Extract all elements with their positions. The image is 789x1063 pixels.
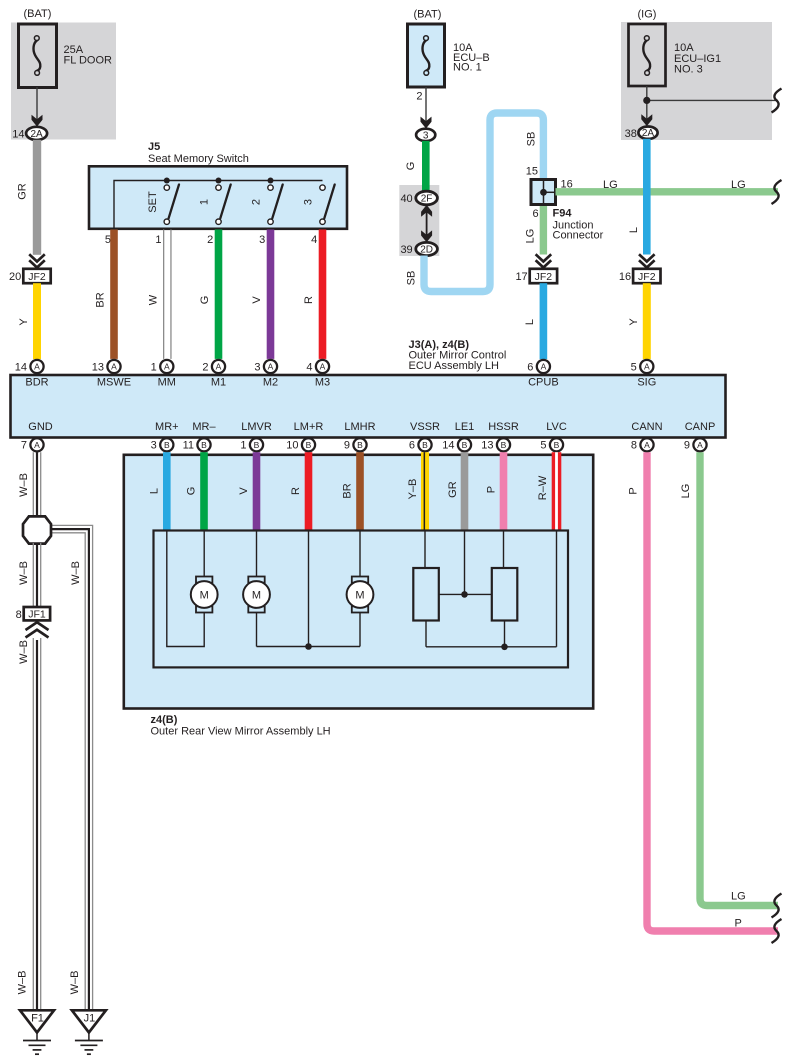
- svg-text:VSSR: VSSR: [410, 421, 440, 433]
- wire L inside to motor1 bottom: [167, 531, 204, 647]
- svg-text:F1: F1: [31, 1013, 44, 1025]
- middle link resistor1-resistor2: [439, 593, 492, 595]
- node dot 2: [268, 178, 274, 184]
- svg-text:LMVR: LMVR: [241, 421, 272, 433]
- wire G green: [215, 230, 223, 359]
- svg-text:Seat Memory Switch: Seat Memory Switch: [148, 153, 249, 165]
- svg-text:(BAT): (BAT): [414, 9, 442, 21]
- svg-text:5: 5: [105, 234, 111, 246]
- svg-text:M1: M1: [211, 377, 226, 389]
- svg-text:Y–B: Y–B: [407, 479, 419, 500]
- chevron into JF2 pin16: [639, 254, 655, 267]
- wire P pink CANN routed to right: [647, 452, 778, 931]
- svg-text:M: M: [355, 589, 364, 601]
- svg-text:W–B: W–B: [18, 640, 30, 664]
- svg-text:LG: LG: [524, 229, 536, 244]
- svg-text:L: L: [148, 488, 160, 494]
- svg-text:10: 10: [286, 440, 298, 452]
- svg-text:2: 2: [251, 199, 263, 205]
- resistor block 1: [413, 568, 439, 621]
- svg-text:3: 3: [151, 440, 157, 452]
- svg-text:1: 1: [240, 440, 246, 452]
- svg-text:A: A: [34, 362, 40, 372]
- svg-text:B: B: [501, 440, 507, 450]
- svg-text:R: R: [290, 487, 302, 495]
- svg-text:G: G: [186, 487, 198, 496]
- svg-text:SIG: SIG: [637, 377, 656, 389]
- chevron up below JF1: [26, 622, 49, 637]
- svg-text:BDR: BDR: [25, 377, 48, 389]
- double arrow between 2F and 2D: [426, 212, 428, 235]
- wire W-B JF1 to F1 ground: [33, 638, 40, 1009]
- svg-text:GR: GR: [16, 183, 28, 200]
- svg-text:A: A: [644, 440, 650, 450]
- svg-text:11: 11: [183, 440, 194, 452]
- svg-text:MM: MM: [158, 377, 176, 389]
- svg-text:L: L: [524, 319, 536, 325]
- svg-text:3: 3: [423, 130, 429, 141]
- svg-text:2: 2: [207, 234, 213, 246]
- svg-text:8: 8: [16, 609, 22, 621]
- svg-text:A: A: [216, 362, 222, 372]
- svg-text:A: A: [164, 362, 170, 372]
- svg-text:LG: LG: [680, 484, 692, 499]
- wire G inside to motor1 top: [203, 531, 205, 577]
- gray relay block box right: [621, 22, 772, 140]
- svg-text:B: B: [254, 440, 260, 450]
- junction dot GR link: [461, 591, 468, 598]
- svg-text:HSSR: HSSR: [488, 421, 519, 433]
- svg-text:2A: 2A: [642, 128, 655, 139]
- svg-text:13: 13: [92, 361, 104, 373]
- wire SB skyblue routed path: [424, 113, 543, 292]
- svg-text:F94: F94: [553, 208, 573, 220]
- wire BR brown: [110, 230, 118, 359]
- squiggle LG: [772, 894, 782, 918]
- svg-text:LVC: LVC: [546, 421, 567, 433]
- svg-text:NO. 1: NO. 1: [453, 62, 482, 74]
- arrowhead down: [32, 115, 43, 127]
- internal bus wire: [114, 181, 323, 230]
- svg-text:M3: M3: [315, 377, 330, 389]
- svg-text:B: B: [462, 440, 468, 450]
- svg-text:2: 2: [416, 91, 422, 103]
- wire W-B from GND to splice: [33, 452, 40, 517]
- svg-text:W–B: W–B: [18, 473, 30, 497]
- svg-text:P: P: [735, 918, 742, 930]
- svg-text:B: B: [422, 440, 428, 450]
- svg-text:CANP: CANP: [685, 421, 716, 433]
- svg-text:6: 6: [409, 440, 415, 452]
- motor M2 horizontal mirror: [248, 577, 264, 583]
- wire L blue to CPUB: [540, 283, 548, 359]
- svg-text:8: 8: [631, 440, 637, 452]
- motor rail motor2-motor3: [257, 646, 361, 648]
- svg-text:M2: M2: [263, 377, 278, 389]
- svg-text:Connector: Connector: [553, 230, 604, 242]
- svg-text:L: L: [628, 227, 640, 233]
- svg-text:SB: SB: [526, 132, 538, 147]
- svg-text:BR: BR: [342, 483, 354, 498]
- wire Y-B inside to resistor1: [424, 531, 426, 568]
- resistor1 bottom lead: [425, 621, 427, 647]
- svg-text:16: 16: [619, 271, 631, 283]
- motor M3 retract: [352, 577, 368, 583]
- svg-text:6: 6: [532, 208, 538, 220]
- svg-text:z4(B): z4(B): [151, 714, 178, 726]
- motor M1 vertical mirror: [196, 577, 212, 583]
- svg-text:LMHR: LMHR: [344, 421, 375, 433]
- svg-text:P: P: [486, 486, 498, 493]
- wire R red LM+R: [305, 452, 313, 530]
- svg-text:39: 39: [400, 244, 412, 256]
- mirror assembly box z4(B): [124, 455, 593, 709]
- svg-text:BR: BR: [95, 292, 107, 307]
- inner circuit rectangle: [154, 531, 569, 668]
- bottom link rail: [426, 646, 557, 648]
- svg-text:15: 15: [526, 166, 538, 178]
- svg-text:2: 2: [202, 361, 208, 373]
- svg-text:B: B: [554, 440, 560, 450]
- svg-text:B: B: [306, 440, 312, 450]
- connector oval 3: [416, 129, 435, 141]
- svg-text:V: V: [251, 296, 263, 304]
- wire BR brown LMHR: [356, 452, 364, 530]
- svg-text:13: 13: [481, 440, 493, 452]
- svg-text:14: 14: [15, 361, 27, 373]
- junction dot R rail: [305, 643, 312, 650]
- svg-text:R: R: [303, 296, 315, 304]
- svg-text:(IG): (IG): [638, 9, 657, 21]
- squiggle LG right: [772, 180, 782, 204]
- svg-text:NO. 3: NO. 3: [674, 64, 703, 76]
- fuse 25A FL DOOR box: [19, 24, 57, 88]
- svg-text:W–B: W–B: [17, 971, 29, 995]
- wire W white: [163, 230, 164, 359]
- svg-text:B: B: [164, 440, 170, 450]
- wire Y yellow to SIG: [643, 283, 651, 359]
- svg-text:JF2: JF2: [535, 271, 553, 283]
- arrowhead down: [641, 114, 652, 126]
- junction dot: [643, 97, 650, 104]
- wire R inside down to rail: [308, 531, 310, 647]
- svg-text:B: B: [357, 440, 363, 450]
- squiggle P: [772, 919, 782, 943]
- svg-text:A: A: [111, 362, 117, 372]
- fuse element symbol: [643, 41, 650, 71]
- svg-text:1: 1: [199, 199, 211, 205]
- svg-text:Outer Rear View Mirror Assembl: Outer Rear View Mirror Assembly LH: [151, 726, 331, 738]
- chevron into JF2: [29, 254, 45, 267]
- svg-text:V: V: [238, 487, 250, 495]
- svg-text:GR: GR: [447, 481, 459, 498]
- svg-text:LG: LG: [603, 179, 618, 191]
- svg-text:14: 14: [442, 440, 454, 452]
- svg-text:A: A: [320, 362, 326, 372]
- svg-text:9: 9: [684, 440, 690, 452]
- wire Y yellow: [33, 283, 41, 359]
- svg-text:J5: J5: [148, 141, 160, 153]
- wire R red: [319, 230, 327, 359]
- svg-text:B: B: [201, 440, 207, 450]
- svg-text:2D: 2D: [420, 245, 433, 256]
- wire L blue: [643, 139, 651, 255]
- svg-text:GND: GND: [28, 421, 53, 433]
- branch line to right with squiggle: [647, 99, 778, 101]
- ground J1: [72, 1010, 106, 1032]
- svg-text:17: 17: [515, 271, 527, 283]
- wire BR inside to motor3 top: [359, 531, 361, 577]
- svg-text:Y: Y: [628, 318, 640, 326]
- ECU box J3(A)/z4(B): [11, 375, 726, 438]
- wire P pink HSSR: [500, 452, 508, 530]
- resistor block 2: [492, 568, 518, 621]
- svg-text:4: 4: [311, 234, 317, 246]
- svg-text:G: G: [405, 162, 417, 171]
- wire P inside to resistor2: [503, 531, 505, 568]
- svg-text:14: 14: [12, 128, 24, 140]
- svg-text:JF2: JF2: [638, 271, 656, 283]
- fuse element symbol: [423, 41, 430, 71]
- switch box J5: [89, 166, 347, 229]
- svg-text:FL DOOR: FL DOOR: [64, 55, 113, 67]
- ground F1: [20, 1010, 54, 1032]
- svg-text:R–W: R–W: [537, 475, 549, 500]
- wire W-B branch to J1: [50, 525, 93, 1009]
- svg-text:2F: 2F: [421, 194, 433, 205]
- svg-text:W–B: W–B: [69, 971, 81, 995]
- svg-text:W: W: [147, 294, 159, 305]
- svg-text:6: 6: [527, 361, 533, 373]
- svg-text:(BAT): (BAT): [24, 8, 52, 20]
- svg-text:3: 3: [303, 199, 315, 205]
- wire R-W red/white LVC: [552, 452, 562, 530]
- svg-text:W–B: W–B: [70, 561, 82, 585]
- svg-text:SET: SET: [147, 191, 159, 213]
- svg-text:A: A: [541, 362, 547, 372]
- svg-text:M: M: [252, 589, 261, 601]
- gray relay block box left: [11, 23, 116, 140]
- svg-text:40: 40: [400, 193, 412, 205]
- chevron into JF2 pin17: [536, 254, 552, 267]
- fuse element symbol: [34, 41, 41, 71]
- wire V violet: [267, 230, 275, 359]
- svg-text:LM+R: LM+R: [294, 421, 324, 433]
- svg-text:SB: SB: [406, 271, 418, 286]
- fuse 10A ECU-IG1 NO.3 box: [629, 24, 666, 86]
- svg-text:CPUB: CPUB: [528, 377, 559, 389]
- svg-text:LG: LG: [731, 179, 746, 191]
- svg-text:JF2: JF2: [28, 271, 46, 283]
- node dot 1: [216, 178, 222, 184]
- wire GR inside to middle link: [464, 531, 466, 594]
- svg-text:P: P: [627, 487, 639, 494]
- wire V inside to motor2 top: [256, 531, 258, 577]
- svg-text:MR+: MR+: [155, 421, 179, 433]
- wire fuse down: [646, 86, 648, 125]
- svg-text:1: 1: [151, 361, 157, 373]
- svg-text:A: A: [34, 440, 40, 450]
- svg-text:3: 3: [254, 361, 260, 373]
- wire fuse to connector 3: [425, 87, 427, 127]
- wire LG vertical below F94: [540, 206, 547, 255]
- svg-text:A: A: [644, 362, 650, 372]
- svg-text:4: 4: [306, 361, 312, 373]
- svg-text:W–B: W–B: [18, 561, 30, 585]
- wire Y-B yellow/black VSSR: [421, 452, 429, 530]
- wire R-W inside down: [556, 531, 558, 647]
- svg-text:MSWE: MSWE: [97, 377, 131, 389]
- svg-text:7: 7: [21, 440, 27, 452]
- wire G green MR-: [200, 452, 208, 530]
- svg-text:ECU Assembly LH: ECU Assembly LH: [409, 360, 500, 372]
- wire G green: [422, 141, 430, 191]
- svg-text:J1: J1: [84, 1013, 96, 1025]
- gray connector box 40/39: [399, 185, 439, 256]
- svg-text:A: A: [697, 440, 703, 450]
- svg-text:G: G: [199, 296, 211, 305]
- fuse 10A ECU-B NO.1 box: [408, 24, 445, 87]
- svg-text:MR–: MR–: [192, 421, 216, 433]
- svg-text:5: 5: [540, 440, 546, 452]
- svg-text:1: 1: [155, 234, 161, 246]
- wire W-B splice to JF1: [33, 543, 40, 607]
- wire fuse to connector 2A: [36, 87, 38, 125]
- svg-text:38: 38: [625, 128, 637, 140]
- svg-text:LE1: LE1: [455, 421, 475, 433]
- resistor2 bottom lead: [504, 621, 506, 647]
- svg-text:CANN: CANN: [631, 421, 662, 433]
- junction dot bottom rail: [501, 644, 508, 651]
- wire L blue MR+: [163, 452, 171, 530]
- svg-text:9: 9: [344, 440, 350, 452]
- svg-text:20: 20: [9, 271, 21, 283]
- arrowhead down: [421, 117, 432, 129]
- wire GR gray: [33, 140, 41, 255]
- svg-text:5: 5: [631, 361, 637, 373]
- svg-text:2A: 2A: [30, 129, 43, 140]
- svg-text:A: A: [268, 362, 274, 372]
- svg-text:M: M: [200, 589, 209, 601]
- svg-text:LG: LG: [731, 891, 746, 903]
- wire GR gray LE1: [461, 452, 469, 530]
- svg-text:JF1: JF1: [28, 609, 46, 621]
- svg-text:Y: Y: [18, 318, 30, 326]
- wire LG horizontal from F94: [556, 188, 779, 195]
- wire V violet LMVR: [253, 452, 261, 530]
- splice octagon: [23, 516, 51, 543]
- motor2 bottom lead: [256, 613, 258, 647]
- wire LG green CANP routed to right: [700, 452, 778, 905]
- motor3 bottom lead: [359, 613, 361, 647]
- svg-text:3: 3: [259, 234, 265, 246]
- node dot SET: [164, 178, 170, 184]
